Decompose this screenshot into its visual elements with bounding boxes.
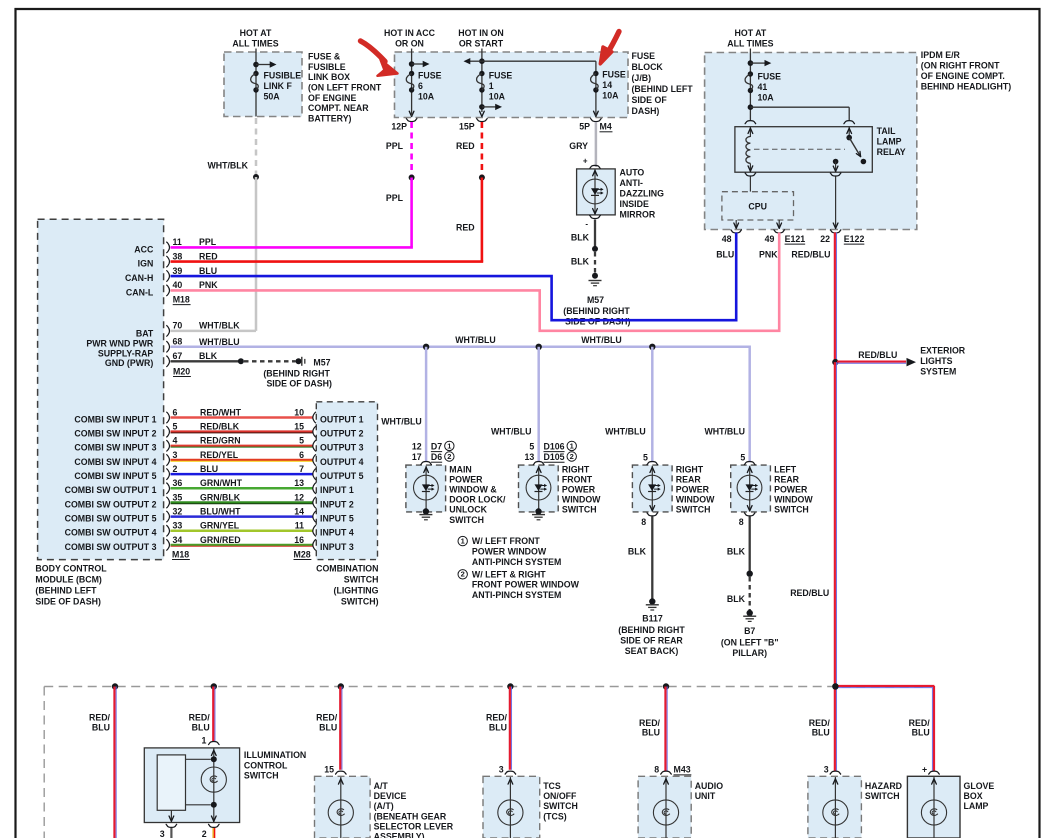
svg-text:11: 11 <box>295 521 304 531</box>
svg-text:16: 16 <box>294 535 304 545</box>
svg-text:ACC: ACC <box>134 244 154 254</box>
svg-text:SWITCH): SWITCH) <box>341 597 379 607</box>
svg-text:BAT: BAT <box>136 329 154 339</box>
svg-text:REAR: REAR <box>676 474 702 484</box>
svg-text:FUSE: FUSE <box>758 72 782 82</box>
svg-text:+: + <box>922 765 927 775</box>
svg-text:DAZZLING: DAZZLING <box>620 189 665 199</box>
svg-text:OR START: OR START <box>459 39 504 49</box>
svg-text:5: 5 <box>643 452 648 462</box>
svg-text:COMBI SW INPUT 4: COMBI SW INPUT 4 <box>74 457 156 467</box>
svg-text:48: 48 <box>722 234 732 244</box>
svg-text:SUPPLY-RAP: SUPPLY-RAP <box>98 348 154 358</box>
svg-text:ALL TIMES: ALL TIMES <box>232 39 278 49</box>
svg-text:SYSTEM: SYSTEM <box>920 367 956 377</box>
svg-text:M18: M18 <box>172 549 189 559</box>
svg-text:15P: 15P <box>459 122 475 132</box>
svg-text:ON/OFF: ON/OFF <box>543 791 577 801</box>
svg-text:M4: M4 <box>600 122 612 132</box>
svg-text:39: 39 <box>173 266 183 276</box>
svg-text:1: 1 <box>489 81 494 91</box>
svg-text:15: 15 <box>324 765 334 775</box>
svg-text:WHT/BLU: WHT/BLU <box>455 335 496 345</box>
svg-text:2: 2 <box>447 452 451 461</box>
svg-text:INPUT 2: INPUT 2 <box>320 499 354 509</box>
svg-text:W/ LEFT & RIGHT: W/ LEFT & RIGHT <box>472 569 546 579</box>
svg-text:RIGHT: RIGHT <box>676 464 704 474</box>
svg-text:M28: M28 <box>294 549 311 559</box>
svg-text:1: 1 <box>201 735 206 745</box>
svg-text:12: 12 <box>412 441 422 451</box>
svg-text:10: 10 <box>294 407 304 417</box>
svg-text:6: 6 <box>173 407 178 417</box>
svg-text:PPL: PPL <box>386 193 404 203</box>
svg-text:RED/WHT: RED/WHT <box>200 407 242 417</box>
svg-text:SWITCH: SWITCH <box>449 515 484 525</box>
svg-text:SWITCH: SWITCH <box>562 505 597 515</box>
svg-text:RED/: RED/ <box>639 718 661 728</box>
svg-text:SWITCH: SWITCH <box>774 505 809 515</box>
svg-text:WINDOW: WINDOW <box>676 495 715 505</box>
svg-text:BLK: BLK <box>727 546 746 556</box>
svg-text:8: 8 <box>654 765 659 775</box>
svg-text:BLK: BLK <box>571 256 590 266</box>
svg-text:WHT/BLU: WHT/BLU <box>491 426 532 436</box>
svg-text:POWER WINDOW: POWER WINDOW <box>472 547 547 557</box>
svg-text:LAMP: LAMP <box>964 801 989 811</box>
svg-text:PNK: PNK <box>199 280 218 290</box>
svg-text:BLU: BLU <box>92 723 110 733</box>
svg-text:RED: RED <box>456 141 475 151</box>
svg-text:COMBINATION: COMBINATION <box>316 563 378 573</box>
svg-text:BLK: BLK <box>571 233 590 243</box>
svg-text:DEVICE: DEVICE <box>374 791 407 801</box>
svg-text:DASH): DASH) <box>632 106 660 116</box>
svg-text:POWER: POWER <box>449 474 483 484</box>
svg-text:ANTI-PINCH SYSTEM: ANTI-PINCH SYSTEM <box>472 590 561 600</box>
svg-text:RED/YEL: RED/YEL <box>200 450 239 460</box>
svg-text:(BENEATH GEAR: (BENEATH GEAR <box>374 811 447 821</box>
svg-text:(ON LEFT "B": (ON LEFT "B" <box>721 638 779 648</box>
svg-text:COMBI SW OUTPUT 3: COMBI SW OUTPUT 3 <box>65 542 157 552</box>
svg-text:RIGHT: RIGHT <box>562 464 590 474</box>
svg-text:RED/BLU: RED/BLU <box>858 350 897 360</box>
svg-text:ALL TIMES: ALL TIMES <box>727 39 773 49</box>
svg-text:SWITCH: SWITCH <box>244 771 279 781</box>
svg-text:3: 3 <box>499 765 504 775</box>
svg-text:70: 70 <box>173 321 183 331</box>
svg-text:RED/BLU: RED/BLU <box>790 588 829 598</box>
svg-text:32: 32 <box>173 506 183 516</box>
svg-text:ASSEMBLY): ASSEMBLY) <box>374 832 425 838</box>
svg-text:COMBI SW OUTPUT 4: COMBI SW OUTPUT 4 <box>65 528 157 538</box>
svg-text:GRN/RED: GRN/RED <box>200 535 241 545</box>
svg-text:SWITCH: SWITCH <box>344 575 379 585</box>
svg-text:LINK BOX: LINK BOX <box>308 72 350 82</box>
svg-text:WINDOW: WINDOW <box>562 495 601 505</box>
svg-text:(BEHIND LEFT: (BEHIND LEFT <box>35 586 97 596</box>
svg-text:BLU: BLU <box>642 728 660 738</box>
svg-text:33: 33 <box>173 521 183 531</box>
svg-text:B117: B117 <box>642 614 663 624</box>
svg-text:WHT/BLU: WHT/BLU <box>381 416 422 426</box>
svg-text:UNLOCK: UNLOCK <box>449 505 487 515</box>
svg-text:PWR WND PWR: PWR WND PWR <box>86 338 154 348</box>
svg-text:49: 49 <box>765 234 775 244</box>
svg-text:1: 1 <box>570 441 574 450</box>
svg-text:BEHIND HEADLIGHT): BEHIND HEADLIGHT) <box>921 82 1011 92</box>
svg-text:MAIN: MAIN <box>449 464 471 474</box>
svg-text:COMBI SW OUTPUT 5: COMBI SW OUTPUT 5 <box>65 514 157 524</box>
svg-text:COMBI SW INPUT 5: COMBI SW INPUT 5 <box>74 471 156 481</box>
svg-text:(A/T): (A/T) <box>374 801 394 811</box>
svg-text:FUSIBLE: FUSIBLE <box>308 62 346 72</box>
svg-text:FUSE &: FUSE & <box>308 52 341 62</box>
svg-text:SWITCH: SWITCH <box>676 505 711 515</box>
svg-text:POWER: POWER <box>676 485 710 495</box>
svg-text:11: 11 <box>173 237 182 247</box>
svg-text:SIDE OF DASH): SIDE OF DASH) <box>35 597 101 607</box>
svg-text:TAIL: TAIL <box>877 126 897 136</box>
svg-text:6: 6 <box>299 450 304 460</box>
svg-text:PILLAR): PILLAR) <box>732 648 767 658</box>
svg-text:INPUT 4: INPUT 4 <box>320 528 354 538</box>
svg-text:RED: RED <box>199 251 218 261</box>
svg-text:RED/: RED/ <box>189 713 211 723</box>
svg-text:5: 5 <box>173 422 178 432</box>
svg-text:PPL: PPL <box>199 237 217 247</box>
svg-text:M20: M20 <box>173 366 190 376</box>
svg-text:14: 14 <box>602 80 612 90</box>
svg-text:BLU: BLU <box>489 723 507 733</box>
svg-text:GRN/WHT: GRN/WHT <box>200 478 243 488</box>
svg-text:1: 1 <box>461 537 465 546</box>
svg-text:(BEHIND RIGHT: (BEHIND RIGHT <box>618 625 685 635</box>
svg-text:COMBI SW OUTPUT 2: COMBI SW OUTPUT 2 <box>65 499 157 509</box>
svg-text:WHT/BLK: WHT/BLK <box>207 160 248 170</box>
svg-text:EXTERIOR: EXTERIOR <box>920 346 966 356</box>
svg-text:1: 1 <box>447 441 451 450</box>
svg-text:ILLUMINATION: ILLUMINATION <box>244 750 306 760</box>
svg-text:SELECTOR LEVER: SELECTOR LEVER <box>374 822 454 832</box>
svg-text:4: 4 <box>173 436 178 446</box>
svg-text:SIDE OF REAR: SIDE OF REAR <box>620 635 683 645</box>
svg-text:GRN/BLK: GRN/BLK <box>200 492 241 502</box>
svg-text:ANTI-: ANTI- <box>620 178 644 188</box>
svg-text:FUSE: FUSE <box>489 71 513 81</box>
svg-text:PPL: PPL <box>386 141 404 151</box>
svg-text:3: 3 <box>824 765 829 775</box>
svg-text:AUTO: AUTO <box>620 167 645 177</box>
svg-text:FRONT POWER WINDOW: FRONT POWER WINDOW <box>472 580 580 590</box>
svg-text:M43: M43 <box>674 765 691 775</box>
svg-text:COMBI SW INPUT 1: COMBI SW INPUT 1 <box>74 414 156 424</box>
svg-text:W/ LEFT FRONT: W/ LEFT FRONT <box>472 536 541 546</box>
svg-text:COMPT. NEAR: COMPT. NEAR <box>308 103 369 113</box>
svg-text:RED/GRN: RED/GRN <box>200 436 241 446</box>
svg-text:RED/: RED/ <box>909 718 931 728</box>
svg-text:12: 12 <box>294 492 304 502</box>
svg-text:HOT IN ON: HOT IN ON <box>458 28 503 38</box>
svg-text:BLK: BLK <box>628 546 647 556</box>
svg-text:GND (PWR): GND (PWR) <box>105 358 153 368</box>
svg-text:5: 5 <box>299 436 304 446</box>
svg-text:OUTPUT 4: OUTPUT 4 <box>320 457 364 467</box>
svg-text:WHT/BLU: WHT/BLU <box>605 426 646 436</box>
svg-text:(ON LEFT FRONT: (ON LEFT FRONT <box>308 83 382 93</box>
svg-text:3: 3 <box>173 450 178 460</box>
svg-text:5: 5 <box>740 452 745 462</box>
svg-text:41: 41 <box>758 82 768 92</box>
svg-text:OF ENGINE COMPT.: OF ENGINE COMPT. <box>921 71 1005 81</box>
svg-text:BLU: BLU <box>200 464 218 474</box>
svg-text:REAR: REAR <box>774 474 800 484</box>
svg-text:BLU: BLU <box>199 266 217 276</box>
svg-text:INPUT 5: INPUT 5 <box>320 514 354 524</box>
svg-text:WINDOW &: WINDOW & <box>449 485 497 495</box>
svg-text:40: 40 <box>173 280 183 290</box>
svg-text:UNIT: UNIT <box>695 791 716 801</box>
svg-text:CAN-L: CAN-L <box>126 287 154 297</box>
svg-text:WHT/BLK: WHT/BLK <box>199 321 240 331</box>
svg-text:(TCS): (TCS) <box>543 811 567 821</box>
svg-text:35: 35 <box>173 492 183 502</box>
svg-text:OUTPUT 3: OUTPUT 3 <box>320 443 364 453</box>
svg-text:SWITCH: SWITCH <box>865 791 900 801</box>
svg-text:M18: M18 <box>173 294 190 304</box>
svg-text:LAMP: LAMP <box>877 137 902 147</box>
svg-text:BODY CONTROL: BODY CONTROL <box>35 563 107 573</box>
svg-text:BLK: BLK <box>199 351 218 361</box>
svg-text:17: 17 <box>412 452 422 462</box>
svg-text:13: 13 <box>294 478 304 488</box>
svg-text:D7: D7 <box>431 441 442 451</box>
svg-text:RED/: RED/ <box>316 713 338 723</box>
svg-text:COMBI SW OUTPUT 1: COMBI SW OUTPUT 1 <box>65 485 157 495</box>
svg-text:D105: D105 <box>544 452 565 462</box>
svg-text:SIDE OF DASH): SIDE OF DASH) <box>266 379 332 389</box>
svg-text:(BEHIND LEFT: (BEHIND LEFT <box>632 84 694 94</box>
svg-text:WHT/BLU: WHT/BLU <box>704 426 745 436</box>
svg-text:M57: M57 <box>313 358 330 368</box>
svg-text:FRONT: FRONT <box>562 474 593 484</box>
svg-text:5: 5 <box>529 441 534 451</box>
svg-text:OUTPUT 2: OUTPUT 2 <box>320 429 364 439</box>
svg-text:FUSE: FUSE <box>602 70 626 80</box>
svg-text:BLU: BLU <box>319 723 337 733</box>
svg-text:14: 14 <box>294 506 304 516</box>
svg-text:POWER: POWER <box>562 485 596 495</box>
svg-text:D106: D106 <box>544 441 565 451</box>
svg-text:MIRROR: MIRROR <box>620 210 656 220</box>
svg-text:(BEHIND RIGHT: (BEHIND RIGHT <box>563 306 630 316</box>
svg-text:POWER: POWER <box>774 485 808 495</box>
svg-text:INPUT 3: INPUT 3 <box>320 542 354 552</box>
svg-text:TCS: TCS <box>543 781 561 791</box>
svg-text:BLOCK: BLOCK <box>632 62 664 72</box>
svg-text:LEFT: LEFT <box>774 464 797 474</box>
svg-text:SEAT BACK): SEAT BACK) <box>625 646 679 656</box>
svg-text:GLOVE: GLOVE <box>964 781 995 791</box>
svg-text:COMBI SW INPUT 2: COMBI SW INPUT 2 <box>74 429 156 439</box>
svg-text:LINK F: LINK F <box>264 81 293 91</box>
svg-text:RED/BLU: RED/BLU <box>791 249 830 259</box>
svg-text:10A: 10A <box>418 92 435 102</box>
svg-text:8: 8 <box>641 517 646 527</box>
svg-text:(ON RIGHT FRONT: (ON RIGHT FRONT <box>921 61 1000 71</box>
svg-text:OUTPUT 1: OUTPUT 1 <box>320 414 364 424</box>
svg-text:RED/: RED/ <box>486 713 508 723</box>
svg-text:(J/B): (J/B) <box>632 73 652 83</box>
svg-text:15: 15 <box>294 422 304 432</box>
svg-text:68: 68 <box>173 337 183 347</box>
svg-text:22: 22 <box>820 234 830 244</box>
svg-text:M57: M57 <box>587 295 604 305</box>
svg-text:GRY: GRY <box>569 141 588 151</box>
svg-text:WINDOW: WINDOW <box>774 495 813 505</box>
svg-text:INPUT 1: INPUT 1 <box>320 485 354 495</box>
svg-text:RED/: RED/ <box>89 713 111 723</box>
svg-text:FUSE: FUSE <box>632 51 656 61</box>
svg-text:12P: 12P <box>391 122 407 132</box>
svg-text:BLU: BLU <box>192 723 210 733</box>
svg-text:10A: 10A <box>602 91 619 101</box>
svg-text:IPDM E/R: IPDM E/R <box>921 50 961 60</box>
svg-text:BLK: BLK <box>727 594 746 604</box>
svg-text:3: 3 <box>160 829 165 838</box>
svg-text:BATTERY): BATTERY) <box>308 113 352 123</box>
svg-text:IGN: IGN <box>138 259 154 269</box>
svg-text:CAN-H: CAN-H <box>125 273 153 283</box>
svg-text:BOX: BOX <box>964 791 983 801</box>
svg-text:SIDE OF: SIDE OF <box>632 95 668 105</box>
svg-text:WHT/BLU: WHT/BLU <box>199 337 240 347</box>
svg-text:BLU: BLU <box>716 249 734 259</box>
svg-text:COMBI SW INPUT 3: COMBI SW INPUT 3 <box>74 443 156 453</box>
svg-text:RED/BLK: RED/BLK <box>200 422 240 432</box>
svg-text:OUTPUT 5: OUTPUT 5 <box>320 471 364 481</box>
svg-text:RELAY: RELAY <box>877 147 906 157</box>
svg-text:E122: E122 <box>844 234 865 244</box>
svg-text:RED/: RED/ <box>809 718 831 728</box>
svg-text:BLU: BLU <box>912 728 930 738</box>
svg-text:36: 36 <box>173 478 183 488</box>
svg-text:10A: 10A <box>489 92 506 102</box>
svg-text:FUSE: FUSE <box>418 71 442 81</box>
svg-text:(BEHIND RIGHT: (BEHIND RIGHT <box>263 368 330 378</box>
svg-text:+: + <box>583 156 588 165</box>
svg-text:SWITCH: SWITCH <box>543 801 578 811</box>
svg-text:ANTI-PINCH SYSTEM: ANTI-PINCH SYSTEM <box>472 557 561 567</box>
svg-text:OR ON: OR ON <box>395 39 424 49</box>
svg-text:HAZARD: HAZARD <box>865 781 902 791</box>
svg-text:PNK: PNK <box>759 249 778 259</box>
svg-text:5P: 5P <box>579 122 590 132</box>
svg-text:CPU: CPU <box>748 201 767 211</box>
svg-text:HOT AT: HOT AT <box>240 28 272 38</box>
svg-text:-: - <box>585 219 588 228</box>
svg-text:OF ENGINE: OF ENGINE <box>308 93 357 103</box>
svg-text:CONTROL: CONTROL <box>244 760 288 770</box>
svg-text:MODULE (BCM): MODULE (BCM) <box>35 575 102 585</box>
svg-text:2: 2 <box>173 464 178 474</box>
svg-text:(LIGHTING: (LIGHTING <box>334 586 379 596</box>
svg-text:BLU: BLU <box>812 728 830 738</box>
svg-text:E121: E121 <box>785 234 806 244</box>
svg-text:2: 2 <box>570 452 574 461</box>
svg-text:LIGHTS: LIGHTS <box>920 356 952 366</box>
svg-text:13: 13 <box>525 452 535 462</box>
svg-text:2: 2 <box>202 829 207 838</box>
svg-text:HOT AT: HOT AT <box>735 28 767 38</box>
svg-text:A/T: A/T <box>374 781 389 791</box>
svg-text:AUDIO: AUDIO <box>695 781 724 791</box>
svg-text:D6: D6 <box>431 452 442 462</box>
svg-text:8: 8 <box>739 517 744 527</box>
svg-text:GRN/YEL: GRN/YEL <box>200 521 240 531</box>
svg-text:10A: 10A <box>758 93 775 103</box>
svg-text:DOOR LOCK/: DOOR LOCK/ <box>449 495 506 505</box>
svg-text:HOT IN ACC: HOT IN ACC <box>384 28 436 38</box>
svg-text:7: 7 <box>299 464 304 474</box>
svg-text:INSIDE: INSIDE <box>620 199 649 209</box>
svg-text:2: 2 <box>461 570 465 579</box>
svg-text:67: 67 <box>173 351 183 361</box>
svg-text:WHT/BLU: WHT/BLU <box>581 335 622 345</box>
svg-text:RED: RED <box>456 223 475 233</box>
svg-text:34: 34 <box>173 535 183 545</box>
svg-text:BLU/WHT: BLU/WHT <box>200 506 241 516</box>
svg-text:6: 6 <box>418 81 423 91</box>
svg-text:50A: 50A <box>264 92 281 102</box>
svg-text:FUSIBLE: FUSIBLE <box>264 71 302 81</box>
svg-text:B7: B7 <box>744 626 755 636</box>
svg-text:38: 38 <box>173 251 183 261</box>
